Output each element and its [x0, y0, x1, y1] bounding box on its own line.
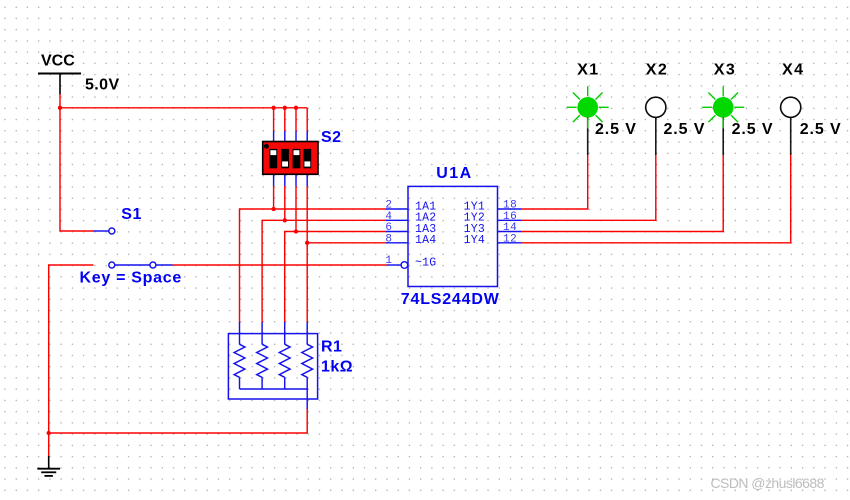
svg-text:2.5 V: 2.5 V [732, 121, 774, 138]
svg-text:S1: S1 [121, 206, 142, 223]
ground [37, 456, 60, 476]
node junction S2 pin1 [271, 106, 275, 110]
svg-text:74LS244DW: 74LS244DW [401, 291, 500, 308]
wire S2 pin7 to row3 [295, 186, 297, 232]
wire rail to S2 pin1 [273, 108, 275, 131]
U1A pin 6 (1A3) [385, 222, 436, 236]
svg-text:14: 14 [503, 222, 517, 234]
node VCC junction [58, 106, 62, 110]
wire rail to S2 pin2 [284, 108, 286, 131]
wire row1 to chip 1A1 and R1 leg1 [240, 209, 386, 323]
svg-text:1Y4: 1Y4 [464, 234, 485, 247]
svg-text:X4: X4 [782, 61, 804, 78]
svg-text:X3: X3 [714, 61, 736, 78]
lamp X4 (off) [781, 97, 801, 155]
svg-text:4: 4 [385, 211, 392, 223]
svg-text:8: 8 [385, 233, 392, 245]
svg-text:2.5 V: 2.5 V [800, 121, 842, 138]
svg-text:VCC: VCC [41, 53, 75, 70]
wire ground stub [48, 433, 50, 457]
U1A pin 16 (1Y2) [464, 211, 521, 225]
wire VCC top rail [60, 107, 307, 109]
svg-text:Key = Space: Key = Space [80, 270, 182, 287]
node junction row1 [271, 207, 275, 211]
svg-text:1kΩ: 1kΩ [321, 358, 353, 375]
svg-text:2: 2 [385, 200, 392, 212]
wire S1 throw2 to ground rail [49, 265, 94, 433]
svg-text:X1: X1 [577, 61, 599, 78]
svg-text:1: 1 [385, 255, 392, 267]
switch S1 [94, 228, 173, 268]
wire chip 1Y1 to lamp X1 [521, 155, 588, 209]
svg-text:CSDN @zhusl6688: CSDN @zhusl6688 [711, 475, 825, 491]
svg-text:1A4: 1A4 [415, 234, 436, 247]
wire row2 to chip 1A2 and R1 leg2 [262, 220, 386, 322]
node junction row4 [305, 241, 309, 245]
wire row4 to chip 1A4 [307, 242, 385, 244]
svg-text:12: 12 [503, 233, 517, 245]
wire S2 pin8 to row4 and R1 leg4 [306, 186, 308, 323]
U1A pin 12 (1Y4) [464, 233, 521, 247]
wire VCC lead [59, 94, 61, 108]
wire chip 1Y4 to lamp X4 [521, 155, 791, 243]
wire chip 1Y2 to lamp X2 [521, 155, 656, 221]
lamp X3 (lit) [702, 86, 744, 155]
dip switch S2 [263, 131, 318, 186]
U1A pin 1 (~1G) with bubble [385, 255, 436, 269]
svg-text:16: 16 [503, 211, 517, 223]
svg-text:2.5 V: 2.5 V [595, 121, 637, 138]
U1A pin 2 (1A1) [385, 200, 436, 214]
wire VCC to S1 throw [60, 108, 94, 231]
U1A pin 8 (1A4) [385, 233, 436, 247]
wire S2 pin6 to row2 [284, 186, 286, 220]
U1A pin 14 (1Y3) [464, 222, 521, 236]
wire row3 to chip 1A3 and R1 leg3 [285, 232, 386, 323]
wire rail to S2 pin4 [306, 108, 308, 131]
node junction row2 [283, 218, 287, 222]
svg-text:~1G: ~1G [415, 256, 436, 269]
svg-text:X2: X2 [646, 61, 668, 78]
node junction S2 pin3 [294, 106, 298, 110]
node junction row3 [294, 229, 298, 233]
svg-text:18: 18 [503, 200, 517, 212]
svg-text:2.5 V: 2.5 V [664, 121, 706, 138]
svg-text:U1A: U1A [436, 165, 473, 182]
power VCC [38, 53, 81, 95]
node ground junction [47, 431, 51, 435]
node junction S2 pin2 [283, 106, 287, 110]
wire rail to S2 pin3 [295, 108, 297, 131]
wire chip 1Y3 to lamp X3 [521, 155, 723, 232]
svg-text:R1: R1 [321, 338, 342, 355]
op-amp U1A chip body [408, 186, 498, 286]
wire R1 output to ground rail [49, 409, 308, 433]
wire S1 common to chip ~1G [173, 264, 387, 266]
U1A pin 4 (1A2) [385, 211, 436, 225]
resistor pack R1 [228, 322, 317, 410]
wire S2 pin5 to row1 [273, 186, 275, 209]
svg-text:5.0V: 5.0V [85, 77, 120, 94]
U1A pin 18 (1Y1) [464, 200, 521, 214]
svg-text:S2: S2 [321, 129, 342, 146]
svg-text:6: 6 [385, 222, 392, 234]
lamp X2 (off) [646, 97, 666, 155]
lamp X1 (lit) [567, 86, 609, 155]
